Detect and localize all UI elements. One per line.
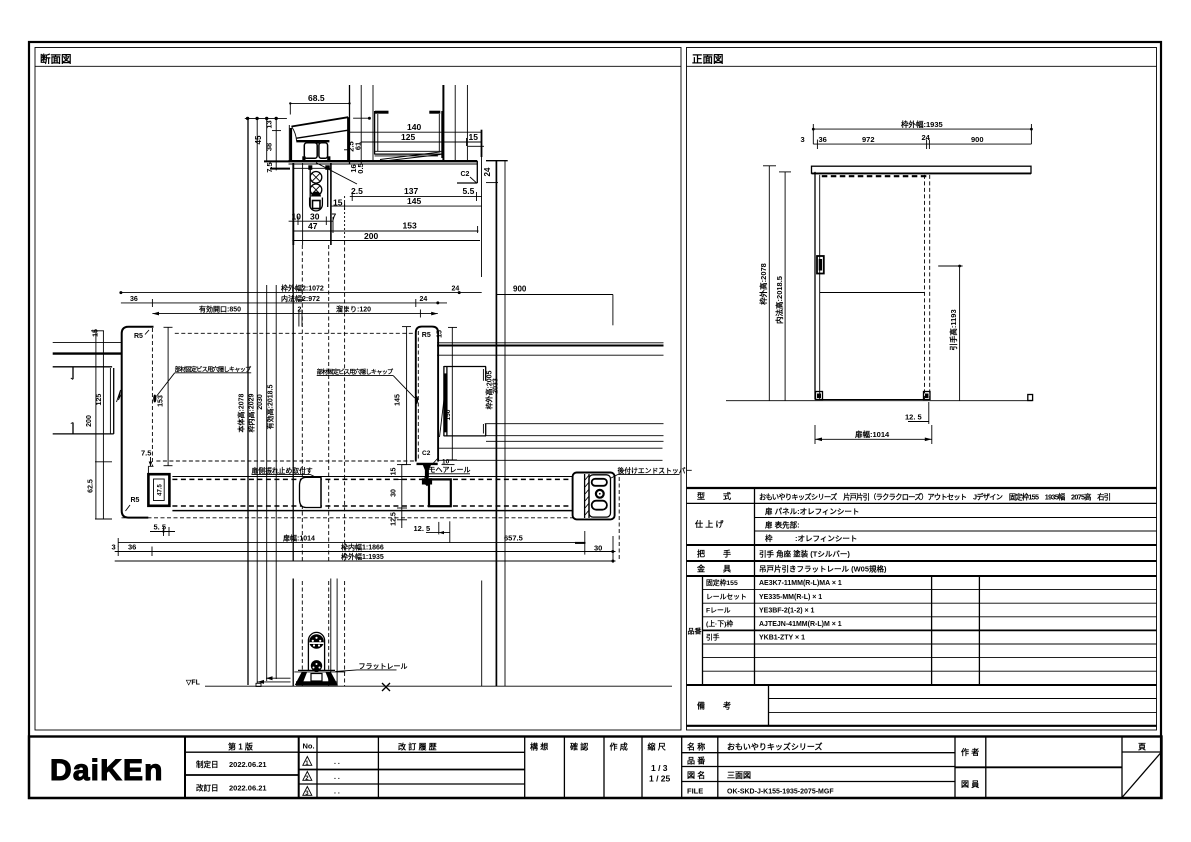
svg-text:把: 把 [697,549,705,559]
door pocket at jamb [148,474,169,506]
svg-text:引手: 引手 [706,633,720,642]
hanger rail C-channel [375,111,443,158]
svg-text:仕 上 げ: 仕 上 げ [694,519,724,529]
svg-text:R5: R5 [134,333,143,340]
svg-text:5. 5: 5. 5 [154,523,167,532]
svg-text:137: 137 [404,186,418,196]
bottom dim row 枠外幅1:1935 [115,552,616,563]
svg-text:YE3BF-2(1-2) × 1: YE3BF-2(1-2) × 1 [759,607,815,614]
svg-text:縮 尺: 縮 尺 [648,742,666,752]
svg-text:R5: R5 [131,497,140,504]
svg-text:140: 140 [407,122,421,132]
header wall lines right part [156,343,663,461]
svg-text:手: 手 [723,549,731,559]
bottom dim row 1014 / 657.5 [118,531,613,563]
svg-text:正面図: 正面図 [692,54,724,66]
floor line elevation [726,395,1033,401]
svg-text:200: 200 [86,415,93,427]
row label 把手 [697,549,731,559]
svg-text:おもいやりキッズシリーズ 片戸片引（ラクラクローズ）アウトセ: おもいやりキッズシリーズ 片戸片引（ラクラクローズ）アウトセット Jデザイン 固… [759,493,1111,502]
svg-text:972: 972 [862,135,875,144]
table row lines [687,503,1157,712]
svg-text:0.5: 0.5 [356,163,365,173]
svg-text:作 者: 作 者 [961,747,979,757]
svg-text:7: 7 [332,211,337,221]
dim 200 [292,231,480,241]
svg-text:部材固定ビス用穴隠しキャップ: 部材固定ビス用穴隠しキャップ [317,368,394,376]
dim 12.5 bottom [414,521,450,542]
svg-text:15: 15 [436,330,443,338]
svg-text:おもいやりキッズシリーズ: おもいやりキッズシリーズ [727,742,822,752]
svg-text:7.5: 7.5 [141,449,151,458]
door panel elevation [815,172,930,400]
svg-text:枠内高:2029: 枠内高:2029 [246,393,255,432]
品番 sub labels [706,578,747,642]
名称 rows [682,753,955,782]
cap label 1 部材固定ビス用穴隠しキャップ [153,365,252,402]
dim 枠外高:2078 [758,166,776,401]
fixing screws [310,172,323,211]
dim 5.5 bottom jamb [150,523,175,537]
svg-text:内法幅2:972: 内法幅2:972 [281,294,320,303]
left dim verticals 45/13/38/7.5 [264,131,290,169]
frame pocket below ceiling [293,163,357,245]
svg-text:153: 153 [158,395,165,407]
svg-text:扉 表先部:: 扉 表先部: [764,520,800,530]
long vertical dim line 2030 [257,118,267,681]
svg-text:溜まり:120: 溜まり:120 [336,304,371,313]
svg-text:モヘアレール: モヘアレール [429,466,471,474]
svg-text:備: 備 [697,701,705,711]
svg-text:C2: C2 [422,450,431,457]
svg-text:枠内幅1:1866: 枠内幅1:1866 [341,542,384,551]
svg-text:13: 13 [265,120,274,128]
svg-text:10: 10 [292,211,302,221]
dim 140 [350,122,482,132]
svg-text:図 員: 図 員 [961,779,979,789]
svg-text:扉幅:1014: 扉幅:1014 [282,533,315,542]
svg-text:改 訂 履 歴: 改 訂 履 歴 [398,742,437,752]
table outer top [687,488,1157,726]
svg-text:断面図: 断面図 [40,53,72,66]
dim 15/145 [331,196,482,210]
svg-text:15: 15 [469,132,479,142]
opening dashed line [175,332,416,334]
svg-text:657.5: 657.5 [504,533,523,542]
svg-text:2022.06.21: 2022.06.21 [229,784,267,793]
dim 引手高:1193 [938,265,962,401]
svg-text:36: 36 [130,296,138,303]
svg-text:24: 24 [452,286,460,293]
dim 900 plan [496,284,613,325]
svg-text:レールセット: レールセット [706,593,747,601]
svg-text:24: 24 [483,167,492,176]
svg-text:式: 式 [723,491,731,501]
row label 金具 [696,564,731,574]
svg-text:YKB1-ZTY × 1: YKB1-ZTY × 1 [759,635,805,642]
dim 内法高:2018.5 [774,172,791,401]
svg-text:型: 型 [697,491,705,501]
jamb height dim line right [448,327,457,460]
svg-text:1 / 25: 1 / 25 [649,774,671,784]
第1版 cell rows [185,752,299,775]
svg-text:改訂日: 改訂日 [196,783,219,793]
end stopper [573,473,615,520]
svg-text:(上·下)枠: (上·下)枠 [706,619,733,628]
svg-text:145: 145 [407,196,421,206]
svg-text:扉幅:1014: 扉幅:1014 [854,429,890,439]
header frame bracket (left assembly) [289,117,348,161]
svg-text:内法高:2018.5: 内法高:2018.5 [774,276,784,324]
svg-text:具: 具 [723,565,731,574]
svg-text:47.5: 47.5 [158,484,164,496]
svg-text:部材固定ビス用穴隠しキャップ: 部材固定ビス用穴隠しキャップ [175,365,252,373]
svg-text:. .: . . [334,759,340,766]
svg-text:3: 3 [801,135,805,144]
handle recess in plan [300,477,322,507]
svg-text:153: 153 [403,221,417,231]
dim 15 rot (left stub) [91,329,104,337]
svg-text:. .: . . [334,789,340,796]
svg-text:頁: 頁 [1138,743,1146,752]
extension dashes top dims [345,196,478,241]
long vertical dim line 有効高2018.5 [265,118,276,679]
svg-text:枠外幅1:1935: 枠外幅1:1935 [341,552,384,561]
svg-text:金: 金 [696,564,706,574]
dim 12.5 elevation [905,402,929,424]
svg-text:有効高:2018.5: 有効高:2018.5 [265,385,274,430]
svg-text:7.5: 7.5 [265,162,274,172]
svg-text:▽FL: ▽FL [185,680,201,687]
dim 2.5/137/5.5 [350,186,482,201]
svg-text:30: 30 [594,543,602,552]
svg-text:枠外幅2:1072: 枠外幅2:1072 [281,284,324,293]
revision triangle markers [303,757,312,798]
svg-text:枠外高:2078: 枠外高:2078 [758,263,768,306]
svg-text:3: 3 [112,542,116,551]
left fixed frame jamb [122,327,154,518]
svg-text:考: 考 [723,701,731,711]
svg-text:200: 200 [364,231,378,241]
svg-text:24: 24 [420,296,428,303]
頁 cell [1122,752,1162,798]
svg-text:12.5: 12.5 [390,512,397,526]
svg-text:145: 145 [395,394,402,406]
svg-text:2: 2 [298,306,302,313]
svg-text:第 1 版: 第 1 版 [228,742,253,752]
svg-text:47: 47 [308,221,318,231]
revision date dots [334,759,340,796]
svg-text:150: 150 [445,409,452,420]
table vertical dividers [703,488,980,726]
row label 仕上げ [694,519,724,529]
svg-text:扉 パネル:オレフィンシート: 扉 パネル:オレフィンシート [764,506,859,516]
svg-text:900: 900 [513,284,527,293]
floor wall verticals [337,579,482,687]
svg-text:2.5: 2.5 [351,186,363,196]
title block outer frame [29,737,1162,799]
wall stud lines above ceiling right [443,85,467,160]
svg-text:品 番: 品 番 [687,756,706,766]
svg-text:61: 61 [354,142,363,150]
dashed line under door band [122,477,620,560]
svg-text:36: 36 [819,135,827,144]
svg-text:2033: 2033 [493,378,500,394]
svg-text:2022.06.21: 2022.06.21 [229,760,267,769]
svg-text:62.5: 62.5 [88,479,95,493]
rotated labels 枠外高2005 / 2033 [484,370,499,409]
svg-text:AJTEJN-41MM(R-L)M × 1: AJTEJN-41MM(R-L)M × 1 [759,621,842,628]
dim 枠外幅:1935 [812,119,1033,144]
svg-text:図 名: 図 名 [687,770,705,780]
svg-text:引手高:1193: 引手高:1193 [948,309,958,350]
svg-text:12. 5: 12. 5 [905,412,922,421]
right jamb (door side frame) [416,327,438,464]
long vertical dim line 枠内高2029 [246,118,257,683]
top dim row2 36 / 内法幅2:972 / 24 [121,294,447,307]
svg-text:900: 900 [971,135,984,144]
svg-text:本体高:2078: 本体高:2078 [237,393,246,433]
svg-text:OK-SKD-J-K155-1935-2075-MGF: OK-SKD-J-K155-1935-2075-MGF [727,789,834,796]
svg-text:構 想: 構 想 [530,742,548,752]
guide box under jamb [429,479,451,506]
svg-text:後付けエンドストッパー: 後付けエンドストッパー [618,466,693,475]
dim 125 and 15 [361,132,484,147]
end stopper label [611,466,692,478]
svg-text:三面図: 三面図 [727,771,751,780]
振れ止め guide under jamb [422,465,432,486]
svg-text:1 / 3: 1 / 3 [651,763,668,773]
svg-text:C2: C2 [461,171,470,178]
品番 contents [759,580,842,642]
long vertical dim line 本体高2078 [237,117,287,685]
svg-text:24: 24 [922,133,931,142]
wall finish line right of frame [457,161,477,183]
svg-text:12. 5: 12. 5 [414,524,431,533]
small arrows at dim line bottoms [256,676,291,686]
svg-text:作 成: 作 成 [610,742,628,752]
cap label 2 部材固定ビス用穴隠しキャップ [317,368,418,404]
x break mark on FL [382,683,390,691]
svg-text:2030: 2030 [257,394,264,410]
svg-text:YE335-MM(R-L) × 1: YE335-MM(R-L) × 1 [759,594,822,601]
wall stud lines above ceiling left [350,85,374,164]
dim 47/153 [293,217,478,233]
svg-text:引手 角座 塗装 (Tシルバー): 引手 角座 塗装 (Tシルバー) [759,549,850,559]
dim row 3/36/972/24/900 [801,133,1032,149]
svg-text:68.5: 68.5 [308,93,325,103]
svg-text:125: 125 [96,394,103,406]
top dim row1 枠外幅2:1072 / 24 [119,284,481,295]
仕上げ contents [764,506,859,543]
svg-text:DaiKEn: DaiKEn [50,754,162,787]
svg-text:制定日: 制定日 [196,759,219,769]
row label 型式 [697,491,731,501]
svg-text:15: 15 [333,198,343,208]
svg-text:扉側振れ止め取付す: 扉側振れ止め取付す [252,466,313,475]
svg-text:125: 125 [401,132,415,142]
row label 備考 [697,701,731,711]
svg-text:36: 36 [128,542,136,551]
door bottom guide blocks [816,392,931,400]
svg-text:名 称: 名 称 [687,742,705,752]
revision rows (版/date/desc columns) [299,752,525,784]
svg-text:. .: . . [334,774,340,781]
振れ止め label [252,466,317,478]
header rail bar elevation [812,166,1032,176]
FL floor line [185,680,672,687]
DAIKEN logo [50,754,162,787]
svg-text:枠外幅:1935: 枠外幅:1935 [900,119,943,129]
bottom roller assembly [308,579,330,673]
svg-text:15: 15 [390,468,397,476]
svg-text:45: 45 [254,135,263,144]
dim 68.5 [289,93,351,115]
svg-text:30: 30 [390,489,397,497]
door panel band plan [172,477,573,511]
dim 扉幅:1014 [815,425,932,444]
flat floor rail [294,670,345,685]
svg-text:FILE: FILE [687,787,703,796]
フラットレール label [336,663,408,672]
jamb dim line 153 [158,327,173,465]
top dim row3 有効開口:850 / 2 / 溜まり:120 [152,304,437,326]
svg-text:Fレール: Fレール [706,606,731,614]
left panel frame (cross-section view) [35,48,681,731]
svg-text:No.: No. [303,742,315,751]
title block vertical dividers [185,737,1122,799]
left wall stub C-section [53,343,122,434]
svg-text:5.5: 5.5 [463,186,475,196]
svg-text:R5: R5 [422,332,431,339]
dim 10/30/7 [289,211,337,225]
svg-text:確 認: 確 認 [570,742,588,752]
aluminum channel (counter frame) [440,366,487,437]
svg-text:吊戸片引きフラットレール (W05規格): 吊戸片引きフラットレール (W05規格) [759,564,887,574]
ceiling line [289,161,508,164]
R5 labels left jamb [126,330,150,511]
bottom dim row 3/36/枠内幅1:1866/30 [112,542,616,556]
モヘアレール label [425,466,471,479]
wall section lines continuing through plan view [293,241,344,686]
svg-text:有効開口:850: 有効開口:850 [199,304,241,313]
wall opening edge right (lower) [496,161,505,687]
dim 24 vertical right [482,130,499,277]
svg-text:枠 :オレフィンシート: 枠 :オレフィンシート [764,533,857,543]
handle elevation [817,256,824,274]
right panel frame (elevation view) [687,48,1157,731]
hanger rollers [302,141,330,161]
svg-text:38: 38 [265,143,274,151]
svg-text:AE3K7-11MM(R-L)MA × 1: AE3K7-11MM(R-L)MA × 1 [759,580,842,587]
dims 15/30/12.5 rotated [390,465,407,528]
door top edge diagonal under rail [380,152,440,162]
svg-text:固定枠155: 固定枠155 [706,578,738,587]
作者/図員 cells [955,766,1122,768]
dim 145 rot with line [395,327,412,465]
svg-text:30: 30 [310,211,320,221]
svg-text:品番: 品番 [688,627,703,636]
dim 62.5 rot [88,331,113,519]
